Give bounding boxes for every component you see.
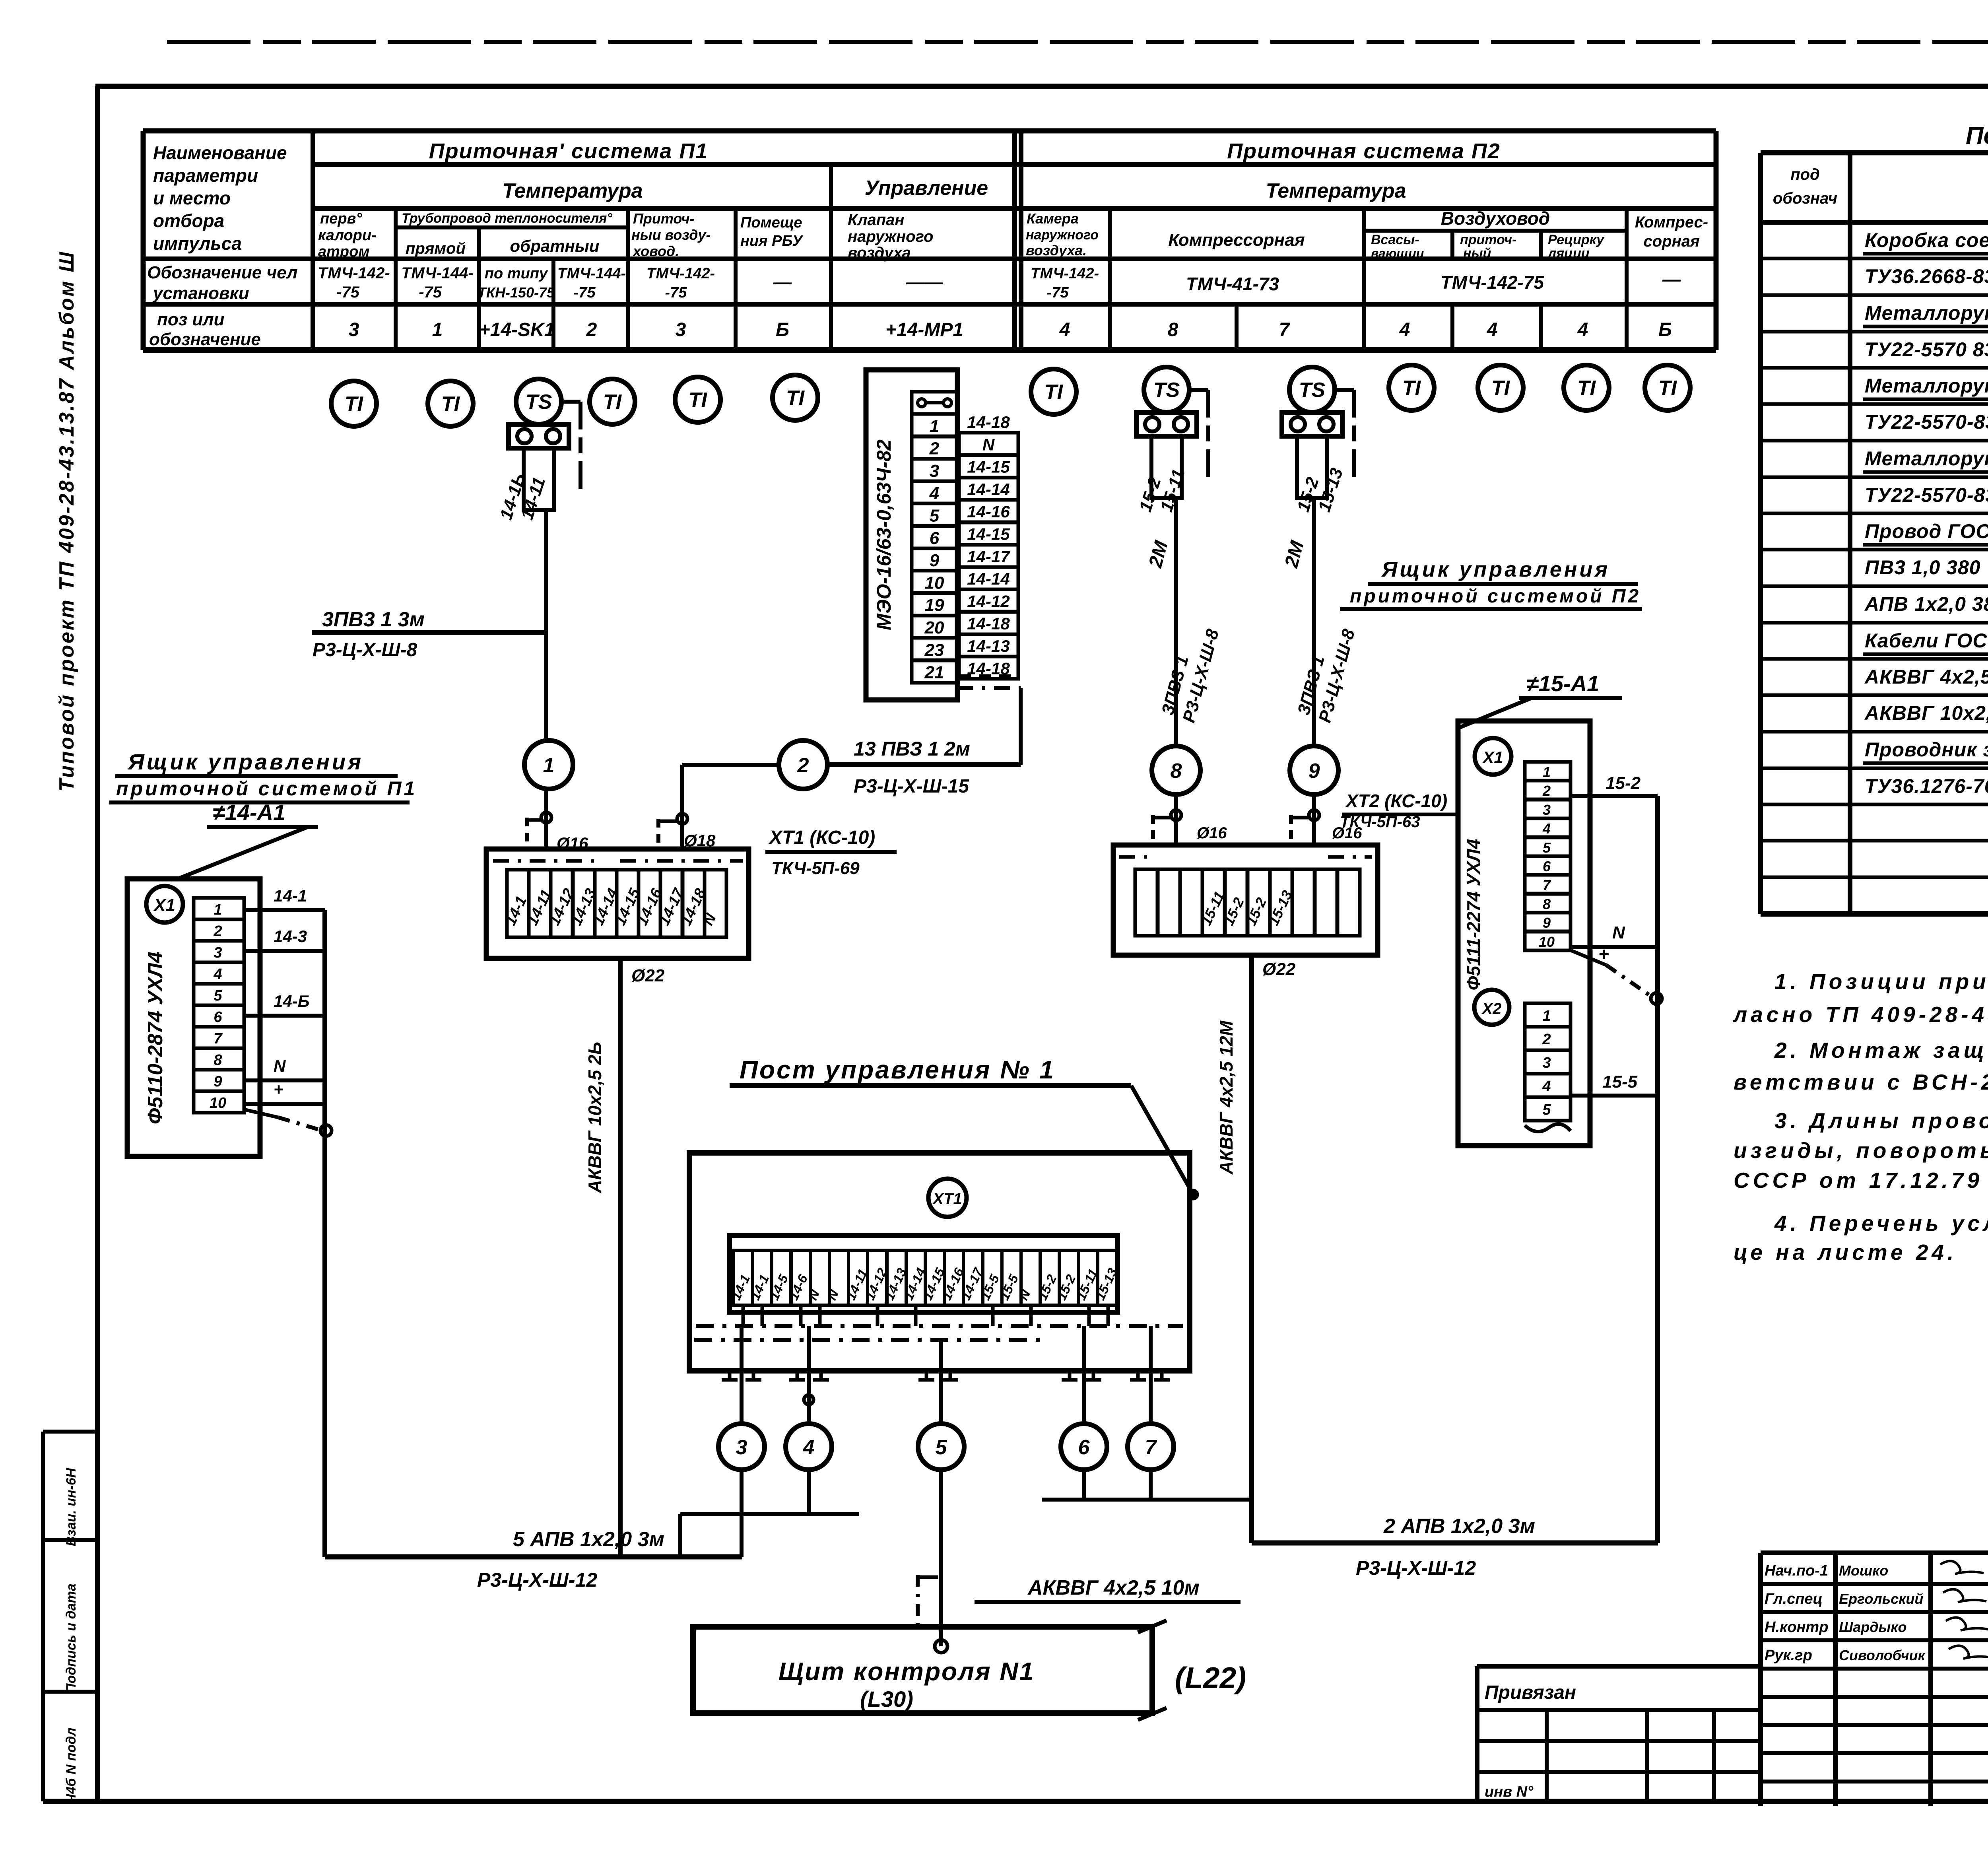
svg-text:2 АПВ 1х2,0 3м: 2 АПВ 1х2,0 3м: [1383, 1515, 1535, 1538]
svg-text:Приточ-: Приточ-: [633, 210, 695, 227]
svg-text:Гл.спец: Гл.спец: [1765, 1591, 1823, 1607]
svg-text:5: 5: [930, 506, 940, 526]
svg-text:4: 4: [1399, 319, 1410, 340]
svg-text:ТМЧ-142-: ТМЧ-142-: [318, 264, 390, 282]
svg-text:ветствии с ВСН-205-84 ММС: ветствии с ВСН-205-84 ММСС СССР: [1734, 1070, 1988, 1094]
svg-text:ныи возду-: ныи возду-: [631, 227, 711, 243]
svg-text:6: 6: [214, 1009, 222, 1026]
svg-text:Р3-Ц-Х-Ш-15: Р3-Ц-Х-Ш-15: [854, 776, 969, 797]
svg-text:ТI: ТI: [1577, 377, 1596, 400]
svg-text:Компрессорная: Компрессорная: [1168, 230, 1305, 250]
svg-text:ТI: ТI: [1658, 377, 1677, 400]
svg-text:+14-SK1: +14-SK1: [479, 319, 555, 340]
svg-text:14-1: 14-1: [274, 886, 307, 905]
svg-text:4: 4: [1542, 820, 1551, 837]
svg-text:наружного: наружного: [848, 228, 933, 245]
svg-text:Типовой проект ТП 409-28-43.13: Типовой проект ТП 409-28-43.13.87 Альбом…: [55, 251, 78, 792]
svg-text:3: 3: [676, 319, 686, 340]
svg-text:5: 5: [1542, 1102, 1551, 1118]
svg-text:Х1: Х1: [1482, 748, 1503, 767]
svg-text:ТМЧ-142-: ТМЧ-142-: [1031, 265, 1099, 282]
svg-text:Пост управления № 1: Пост управления № 1: [740, 1055, 1055, 1084]
svg-text:Ø22: Ø22: [631, 966, 665, 985]
svg-text:4: 4: [929, 484, 939, 503]
svg-text:Проводник заземляющий П-1: Проводник заземляющий П-1: [1865, 738, 1988, 761]
svg-text:14-18: 14-18: [967, 413, 1010, 431]
svg-text:Х2: Х2: [1481, 1000, 1502, 1018]
svg-text:ный: ный: [1463, 246, 1491, 261]
svg-text:Р3-Ц-Х-Ш-12: Р3-Ц-Х-Ш-12: [477, 1569, 597, 1591]
svg-text:вающии: вающии: [1371, 246, 1424, 260]
svg-text:2: 2: [929, 439, 940, 459]
svg-text:Ергольский: Ергольский: [1839, 1591, 1923, 1607]
svg-text:импульса: импульса: [153, 233, 242, 254]
svg-text:1: 1: [543, 754, 555, 777]
svg-text:Рук.гр: Рук.гр: [1765, 1647, 1812, 1664]
svg-text:АКВВГ 4х2,5 12М: АКВВГ 4х2,5 12М: [1216, 1020, 1237, 1175]
svg-text:-75: -75: [336, 284, 360, 301]
svg-text:14-18: 14-18: [967, 614, 1010, 633]
svg-text:5: 5: [1543, 839, 1551, 856]
svg-text:ПВ3 1,0 380: ПВ3 1,0 380: [1865, 556, 1981, 579]
svg-text:ТI: ТI: [1044, 381, 1064, 404]
svg-text:Помеще: Помеще: [740, 214, 802, 231]
svg-text:Камера: Камера: [1027, 210, 1079, 227]
svg-text:Ø18: Ø18: [684, 831, 716, 850]
svg-text:2М: 2М: [1145, 538, 1172, 570]
svg-text:—: —: [773, 272, 792, 292]
svg-text:1: 1: [1543, 764, 1551, 780]
svg-text:4: 4: [213, 966, 222, 983]
svg-text:изгиды, повороты и отходы: изгиды, повороты и отходы согласно письм…: [1734, 1138, 1988, 1163]
svg-text:Металлорукав Р3-Ц-Х-Ш-15: Металлорукав Р3-Ц-Х-Ш-15: [1865, 447, 1988, 470]
svg-text:Кабели ГОСТ 15,08-78*: Кабели ГОСТ 15,08-78*: [1865, 629, 1988, 652]
svg-text:инв N°: инв N°: [1485, 1784, 1534, 1800]
svg-text:(L22): (L22): [1175, 1661, 1246, 1694]
svg-text:ТМЧ-41-73: ТМЧ-41-73: [1186, 274, 1279, 294]
svg-text:3. Длины проводок даны с: 3. Длины проводок даны с учетом 6% надба…: [1774, 1108, 1988, 1133]
svg-text:2: 2: [797, 754, 809, 777]
svg-text:-75: -75: [574, 284, 596, 301]
svg-text:ТУ36.2668-83: ТУ36.2668-83: [1865, 265, 1988, 288]
svg-text:прямой: прямой: [406, 240, 466, 257]
svg-text:Н.контр: Н.контр: [1765, 1619, 1828, 1636]
svg-text:2М: 2М: [1281, 538, 1308, 570]
svg-text:МЭО-16/63-0,63Ч-82: МЭО-16/63-0,63Ч-82: [873, 439, 895, 630]
svg-text:10: 10: [210, 1095, 226, 1111]
svg-text:Ø22: Ø22: [1262, 960, 1296, 979]
svg-text:атром: атром: [318, 243, 369, 260]
svg-text:ТМЧ-144-: ТМЧ-144-: [401, 264, 473, 282]
svg-text:ТS: ТS: [1153, 379, 1180, 402]
svg-text:ТS: ТS: [526, 391, 552, 414]
svg-text:Температура: Температура: [1266, 179, 1406, 202]
svg-text:15-5: 15-5: [1602, 1072, 1638, 1092]
svg-text:ТI: ТI: [689, 389, 708, 412]
svg-text:1: 1: [214, 901, 222, 918]
svg-text:9: 9: [214, 1073, 222, 1090]
svg-text:14-16: 14-16: [967, 502, 1010, 521]
svg-text:Х1: Х1: [153, 896, 175, 915]
svg-text:-75: -75: [665, 284, 687, 301]
svg-text:N: N: [982, 435, 995, 454]
svg-text:14-Б: 14-Б: [274, 992, 309, 1010]
svg-text:5: 5: [214, 987, 222, 1004]
svg-text:Металлорукав Р3-Ц-Х-Ш-12: Металлорукав Р3-Ц-Х-Ш-12: [1865, 375, 1988, 397]
svg-text:N: N: [700, 911, 720, 928]
svg-text:19: 19: [925, 596, 944, 615]
svg-text:3: 3: [1543, 802, 1551, 818]
svg-text:14-15: 14-15: [967, 525, 1010, 544]
svg-text:и место: и место: [153, 188, 231, 208]
svg-text:АКВВГ 4х2,5 10м: АКВВГ 4х2,5 10м: [1027, 1576, 1200, 1599]
svg-text:Ящик управления: Ящик управления: [1381, 558, 1610, 581]
svg-text:8: 8: [1168, 319, 1178, 340]
svg-text:ТМЧ-144-: ТМЧ-144-: [557, 265, 626, 282]
svg-text:наружного: наружного: [1026, 227, 1099, 243]
svg-text:Б: Б: [776, 319, 789, 340]
svg-text:9: 9: [930, 551, 940, 570]
svg-text:4: 4: [1487, 319, 1498, 340]
svg-text:+: +: [274, 1080, 283, 1099]
svg-text:ХТ1: ХТ1: [932, 1190, 962, 1208]
svg-text:7: 7: [1145, 1436, 1157, 1459]
svg-text:2: 2: [1542, 783, 1551, 799]
svg-text:(L30): (L30): [860, 1686, 913, 1712]
svg-text:ТS: ТS: [1299, 379, 1326, 402]
svg-text:ТI: ТI: [603, 391, 622, 414]
svg-text:приточной системой П1: приточной системой П1: [116, 777, 417, 800]
svg-text:ТУ22-5570-83: ТУ22-5570-83: [1865, 484, 1988, 506]
svg-text:Щит контроля N1: Щит контроля N1: [779, 1657, 1035, 1686]
svg-text:ТУ22-5570 83: ТУ22-5570 83: [1865, 338, 1988, 361]
svg-text:+: +: [1598, 944, 1609, 964]
svg-text:ТI: ТI: [1402, 377, 1421, 400]
svg-text:10: 10: [925, 573, 944, 593]
svg-text:ТI: ТI: [345, 392, 364, 416]
svg-text:14-3: 14-3: [274, 927, 307, 946]
svg-text:—: —: [1662, 269, 1681, 289]
svg-text:5: 5: [936, 1436, 947, 1459]
svg-text:ховод.: ховод.: [632, 243, 679, 259]
svg-text:N: N: [805, 1287, 823, 1302]
svg-text:Металлорукав Р3-Ц-Х-Ш-8: Металлорукав Р3-Ц-Х-Ш-8: [1865, 302, 1988, 324]
svg-text:14-12: 14-12: [967, 592, 1010, 610]
svg-text:Приточная' система П1: Приточная' система П1: [429, 139, 708, 163]
svg-text:АКВВГ 4х2,5: АКВВГ 4х2,5: [1864, 666, 1988, 688]
svg-text:приточ-: приточ-: [1460, 232, 1516, 247]
svg-text:ХТ2 (КС-10): ХТ2 (КС-10): [1345, 791, 1447, 811]
svg-text:21: 21: [924, 663, 944, 682]
svg-text:8: 8: [214, 1052, 222, 1069]
svg-text:8: 8: [1171, 760, 1182, 783]
svg-text:обратныи: обратныи: [510, 237, 600, 255]
svg-text:N: N: [274, 1057, 286, 1075]
svg-text:приточной системой П2: приточной системой П2: [1350, 586, 1641, 607]
svg-text:Подпись и дата: Подпись и дата: [64, 1583, 79, 1693]
svg-text:14-14: 14-14: [967, 569, 1010, 588]
svg-text:6: 6: [1078, 1436, 1090, 1459]
svg-text:Шардыко: Шардыко: [1839, 1619, 1907, 1635]
svg-text:6: 6: [930, 528, 940, 548]
svg-text:АПВ 1х2,0 380: АПВ 1х2,0 380: [1864, 593, 1988, 615]
svg-text:перв°: перв°: [320, 210, 363, 227]
svg-text:4: 4: [803, 1436, 815, 1459]
svg-text:14-13: 14-13: [967, 637, 1010, 655]
svg-text:АКВВГ 10х2,5: АКВВГ 10х2,5: [1864, 702, 1988, 724]
svg-text:3: 3: [349, 319, 359, 340]
svg-text:Нач.по-1: Нач.по-1: [1765, 1562, 1828, 1579]
svg-text:отбора: отбора: [153, 210, 224, 231]
svg-text:Перечень: Перечень: [1966, 122, 1988, 150]
svg-text:ТI: ТI: [1491, 377, 1510, 400]
svg-text:N: N: [1612, 923, 1625, 942]
svg-text:Воздуховод: Воздуховод: [1441, 208, 1550, 229]
svg-text:поз или: поз или: [157, 310, 225, 329]
svg-text:2: 2: [586, 319, 597, 340]
svg-text:воздуха.: воздуха.: [1026, 242, 1087, 258]
svg-text:13 ПВЗ 1 2м: 13 ПВЗ 1 2м: [854, 738, 970, 760]
svg-text:14-14: 14-14: [967, 480, 1010, 499]
svg-text:Р3-Ц-Х-Ш-8: Р3-Ц-Х-Ш-8: [313, 639, 417, 661]
svg-text:3: 3: [1542, 1055, 1551, 1071]
svg-text:ТУ36.1276-76: ТУ36.1276-76: [1865, 775, 1988, 797]
svg-text:Мошко: Мошко: [1839, 1562, 1888, 1579]
svg-text:1: 1: [432, 319, 443, 340]
svg-text:2: 2: [213, 923, 222, 940]
svg-text:СССР от 17.12.79 №89-Д.: СССР от 17.12.79 №89-Д.: [1734, 1168, 1988, 1193]
svg-text:Ф5111-2274 УХЛ4: Ф5111-2274 УХЛ4: [1463, 839, 1484, 991]
svg-text:Ч4б N подл: Ч4б N подл: [64, 1727, 79, 1803]
svg-text:14-17: 14-17: [967, 547, 1010, 566]
svg-text:Коробка соединительная КС-1: Коробка соединительная КС-10У2: [1865, 229, 1988, 251]
svg-text:-75: -75: [1047, 284, 1069, 301]
svg-text:ТУ22-5570-83: ТУ22-5570-83: [1865, 411, 1988, 433]
svg-text:Температура: Температура: [502, 179, 643, 202]
svg-text:ТМЧ-142-: ТМЧ-142-: [646, 265, 715, 282]
svg-text:ния РБУ: ния РБУ: [740, 233, 804, 249]
svg-text:Управление: Управление: [865, 177, 988, 200]
svg-text:ТМЧ-142-75: ТМЧ-142-75: [1441, 272, 1544, 293]
svg-text:N: N: [824, 1287, 842, 1302]
svg-text:Взаи. ин-6Н: Взаи. ин-6Н: [64, 1467, 79, 1546]
svg-text:Всасы-: Всасы-: [1371, 232, 1419, 247]
svg-text:——: ——: [906, 272, 943, 292]
svg-text:Компрес-: Компрес-: [1635, 214, 1708, 231]
svg-text:N: N: [1016, 1287, 1033, 1302]
svg-text:ТКЧ-5П-63: ТКЧ-5П-63: [1340, 813, 1420, 831]
svg-text:-75: -75: [419, 284, 442, 301]
svg-text:3: 3: [736, 1436, 747, 1459]
svg-text:1: 1: [1542, 1008, 1551, 1024]
svg-text:ТI: ТI: [441, 392, 460, 416]
svg-text:10: 10: [1539, 934, 1555, 950]
svg-text:15-2: 15-2: [1606, 773, 1641, 793]
svg-text:4: 4: [1542, 1078, 1551, 1095]
svg-text:1: 1: [930, 416, 939, 436]
svg-text:4. Перечень условных обозна: 4. Перечень условных обозначений приведе…: [1774, 1211, 1988, 1236]
svg-text:Ø16: Ø16: [557, 834, 588, 853]
svg-text:Ø16: Ø16: [1197, 824, 1227, 842]
svg-text:обознач: обознач: [1773, 190, 1837, 207]
svg-text:Привязан: Привязан: [1485, 1682, 1576, 1703]
svg-text:9: 9: [1309, 760, 1320, 783]
svg-text:под: под: [1790, 166, 1820, 183]
svg-text:7: 7: [1543, 877, 1551, 893]
svg-text:14-15: 14-15: [967, 458, 1010, 476]
svg-text:АКВВГ 10х2,5 2Ь: АКВВГ 10х2,5 2Ь: [584, 1042, 605, 1194]
svg-text:Провод ГОСТ 6323-79*: Провод ГОСТ 6323-79*: [1865, 520, 1988, 542]
svg-text:ТКЧ-5П-69: ТКЧ-5П-69: [771, 859, 860, 878]
svg-text:воздуха: воздуха: [848, 244, 911, 262]
svg-text:Приточная система П2: Приточная система П2: [1227, 139, 1501, 163]
svg-text:ласно ТП 409-28-43.13.87-А.С0: ласно ТП 409-28-43.13.87-А.С01: [1732, 1002, 1988, 1027]
svg-text:Ф5110-2874 УХЛ4: Ф5110-2874 УХЛ4: [144, 952, 167, 1124]
svg-text:параметри: параметри: [153, 165, 258, 186]
svg-text:+14-МР1: +14-МР1: [885, 319, 963, 340]
svg-text:2: 2: [1542, 1031, 1551, 1048]
svg-text:≠14-А1: ≠14-А1: [213, 800, 285, 825]
svg-text:2. Монтаж защитного занулени: 2. Монтаж защитного зануления выполнить …: [1774, 1038, 1988, 1063]
svg-text:ТI: ТI: [786, 387, 805, 410]
svg-text:Обозначение чел: Обозначение чел: [147, 263, 297, 282]
svg-text:Б: Б: [1658, 319, 1672, 340]
svg-text:Сиволобчик: Сиволобчик: [1839, 1647, 1926, 1663]
svg-text:4: 4: [1577, 319, 1588, 340]
svg-text:Клапан: Клапан: [848, 211, 905, 229]
svg-text:7: 7: [1279, 319, 1291, 340]
svg-text:калори-: калори-: [318, 227, 377, 244]
svg-text:8: 8: [1543, 896, 1551, 912]
svg-text:9: 9: [1543, 915, 1551, 931]
svg-text:23: 23: [924, 640, 944, 660]
svg-text:установки: установки: [152, 284, 249, 303]
svg-text:по типу: по типу: [485, 265, 548, 282]
svg-text:1. Позиции приборов и аппар: 1. Позиции приборов и аппаратуры указаны…: [1774, 969, 1988, 994]
svg-text:це на листе 24.: це на листе 24.: [1734, 1240, 1957, 1265]
svg-text:сорная: сорная: [1643, 233, 1699, 250]
svg-text:5 АПВ 1х2,0 3м: 5 АПВ 1х2,0 3м: [513, 1528, 664, 1551]
svg-text:ХТ1 (КС-10): ХТ1 (КС-10): [768, 827, 875, 848]
svg-text:обозначение: обозначение: [149, 330, 261, 349]
svg-text:7: 7: [214, 1030, 223, 1047]
svg-text:Трубопровод теплоносителя°: Трубопровод теплоносителя°: [402, 211, 612, 226]
svg-text:Рецирку: Рецирку: [1548, 232, 1605, 247]
svg-text:ляции: ляции: [1547, 246, 1590, 261]
svg-text:3: 3: [214, 944, 222, 961]
svg-text:Наименование: Наименование: [153, 142, 287, 163]
svg-text:Р3-Ц-Х-Ш-12: Р3-Ц-Х-Ш-12: [1356, 1557, 1476, 1579]
svg-text:ТКН-150-75: ТКН-150-75: [478, 284, 555, 301]
svg-text:4: 4: [1059, 319, 1070, 340]
svg-text:3ПВ3 1 3м: 3ПВ3 1 3м: [322, 608, 425, 631]
svg-text:3: 3: [930, 461, 939, 481]
svg-text:20: 20: [924, 618, 944, 637]
svg-text:Ящик управления: Ящик управления: [127, 749, 363, 774]
svg-text:≠15-А1: ≠15-А1: [1526, 671, 1599, 696]
svg-text:6: 6: [1543, 858, 1551, 874]
